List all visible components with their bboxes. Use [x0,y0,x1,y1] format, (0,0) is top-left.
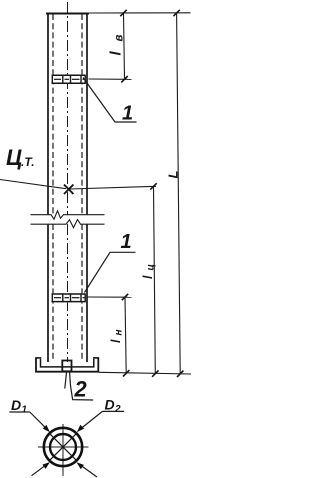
svg-text:2: 2 [74,377,88,402]
dimension line lн [125,297,126,373]
svg-text:L: L [166,171,181,179]
dimension line lв [124,13,125,79]
extension line at top collar (for lв) [89,78,132,80]
base center block (detail 2) [62,361,71,372]
collar band 1 (top) [52,74,86,84]
svg-text:2: 2 [114,404,121,415]
svg-text:1: 1 [121,231,132,253]
svg-text:.Т.: .Т. [21,155,35,169]
label lн [109,329,125,343]
svg-text:D: D [105,397,115,413]
dimension line lц [154,186,156,373]
centerline of column (dash-dot vertical axis) [67,2,69,362]
svg-text:Ц: Ц [6,145,22,170]
base shoe outer profile [36,358,98,372]
base shoe inner profile [41,359,94,367]
leader from Ц.Т. to marker [0,180,66,189]
outer circle D1 [44,428,82,466]
center of gravity marker (asterisk) [64,185,73,194]
extension line at bottom collar (for lн) [88,296,132,298]
svg-text:в: в [114,35,126,42]
base shoe lip caps [35,357,41,359]
leader to label 1 (top) [83,78,137,123]
bottom extension line [99,372,191,374]
label lв [108,35,126,56]
svg-text:ц: ц [146,264,157,270]
section circle: vertical centerline [62,424,64,476]
leader to label 1 (bottom) [85,252,136,292]
column outer wall right [86,14,88,362]
svg-text:l: l [109,339,123,343]
column top edge + top extension line [46,13,89,15]
section circle: horizontal centerline [38,446,89,448]
svg-text:D: D [11,397,21,413]
hidden inner wall left (dashed) [52,14,54,361]
hidden inner wall right (dashed) [81,14,83,361]
inner circle D2 [50,434,76,460]
svg-text:l: l [141,275,155,279]
weld arrow bottom-left [32,464,48,476]
label lц [141,264,157,279]
weld arrow bottom-right [79,464,97,477]
collar band 1 (bottom) [52,293,86,302]
svg-text:н: н [114,329,125,335]
dimension tick slashes [120,10,183,377]
break line lower (with zigzag) [31,220,105,228]
break line upper (with zigzag) [31,211,105,219]
extension line from marker to lц dimension [70,186,156,189]
svg-text:1: 1 [22,405,28,416]
leader strokes to label 2 [65,373,67,389]
column outer wall left [47,14,49,362]
section circle: diagonal axes [49,433,77,461]
leader D1 with arrow [30,412,48,430]
leader D2 with arrow [79,411,103,430]
svg-text:1: 1 [122,103,133,125]
dimension line L [177,13,181,374]
